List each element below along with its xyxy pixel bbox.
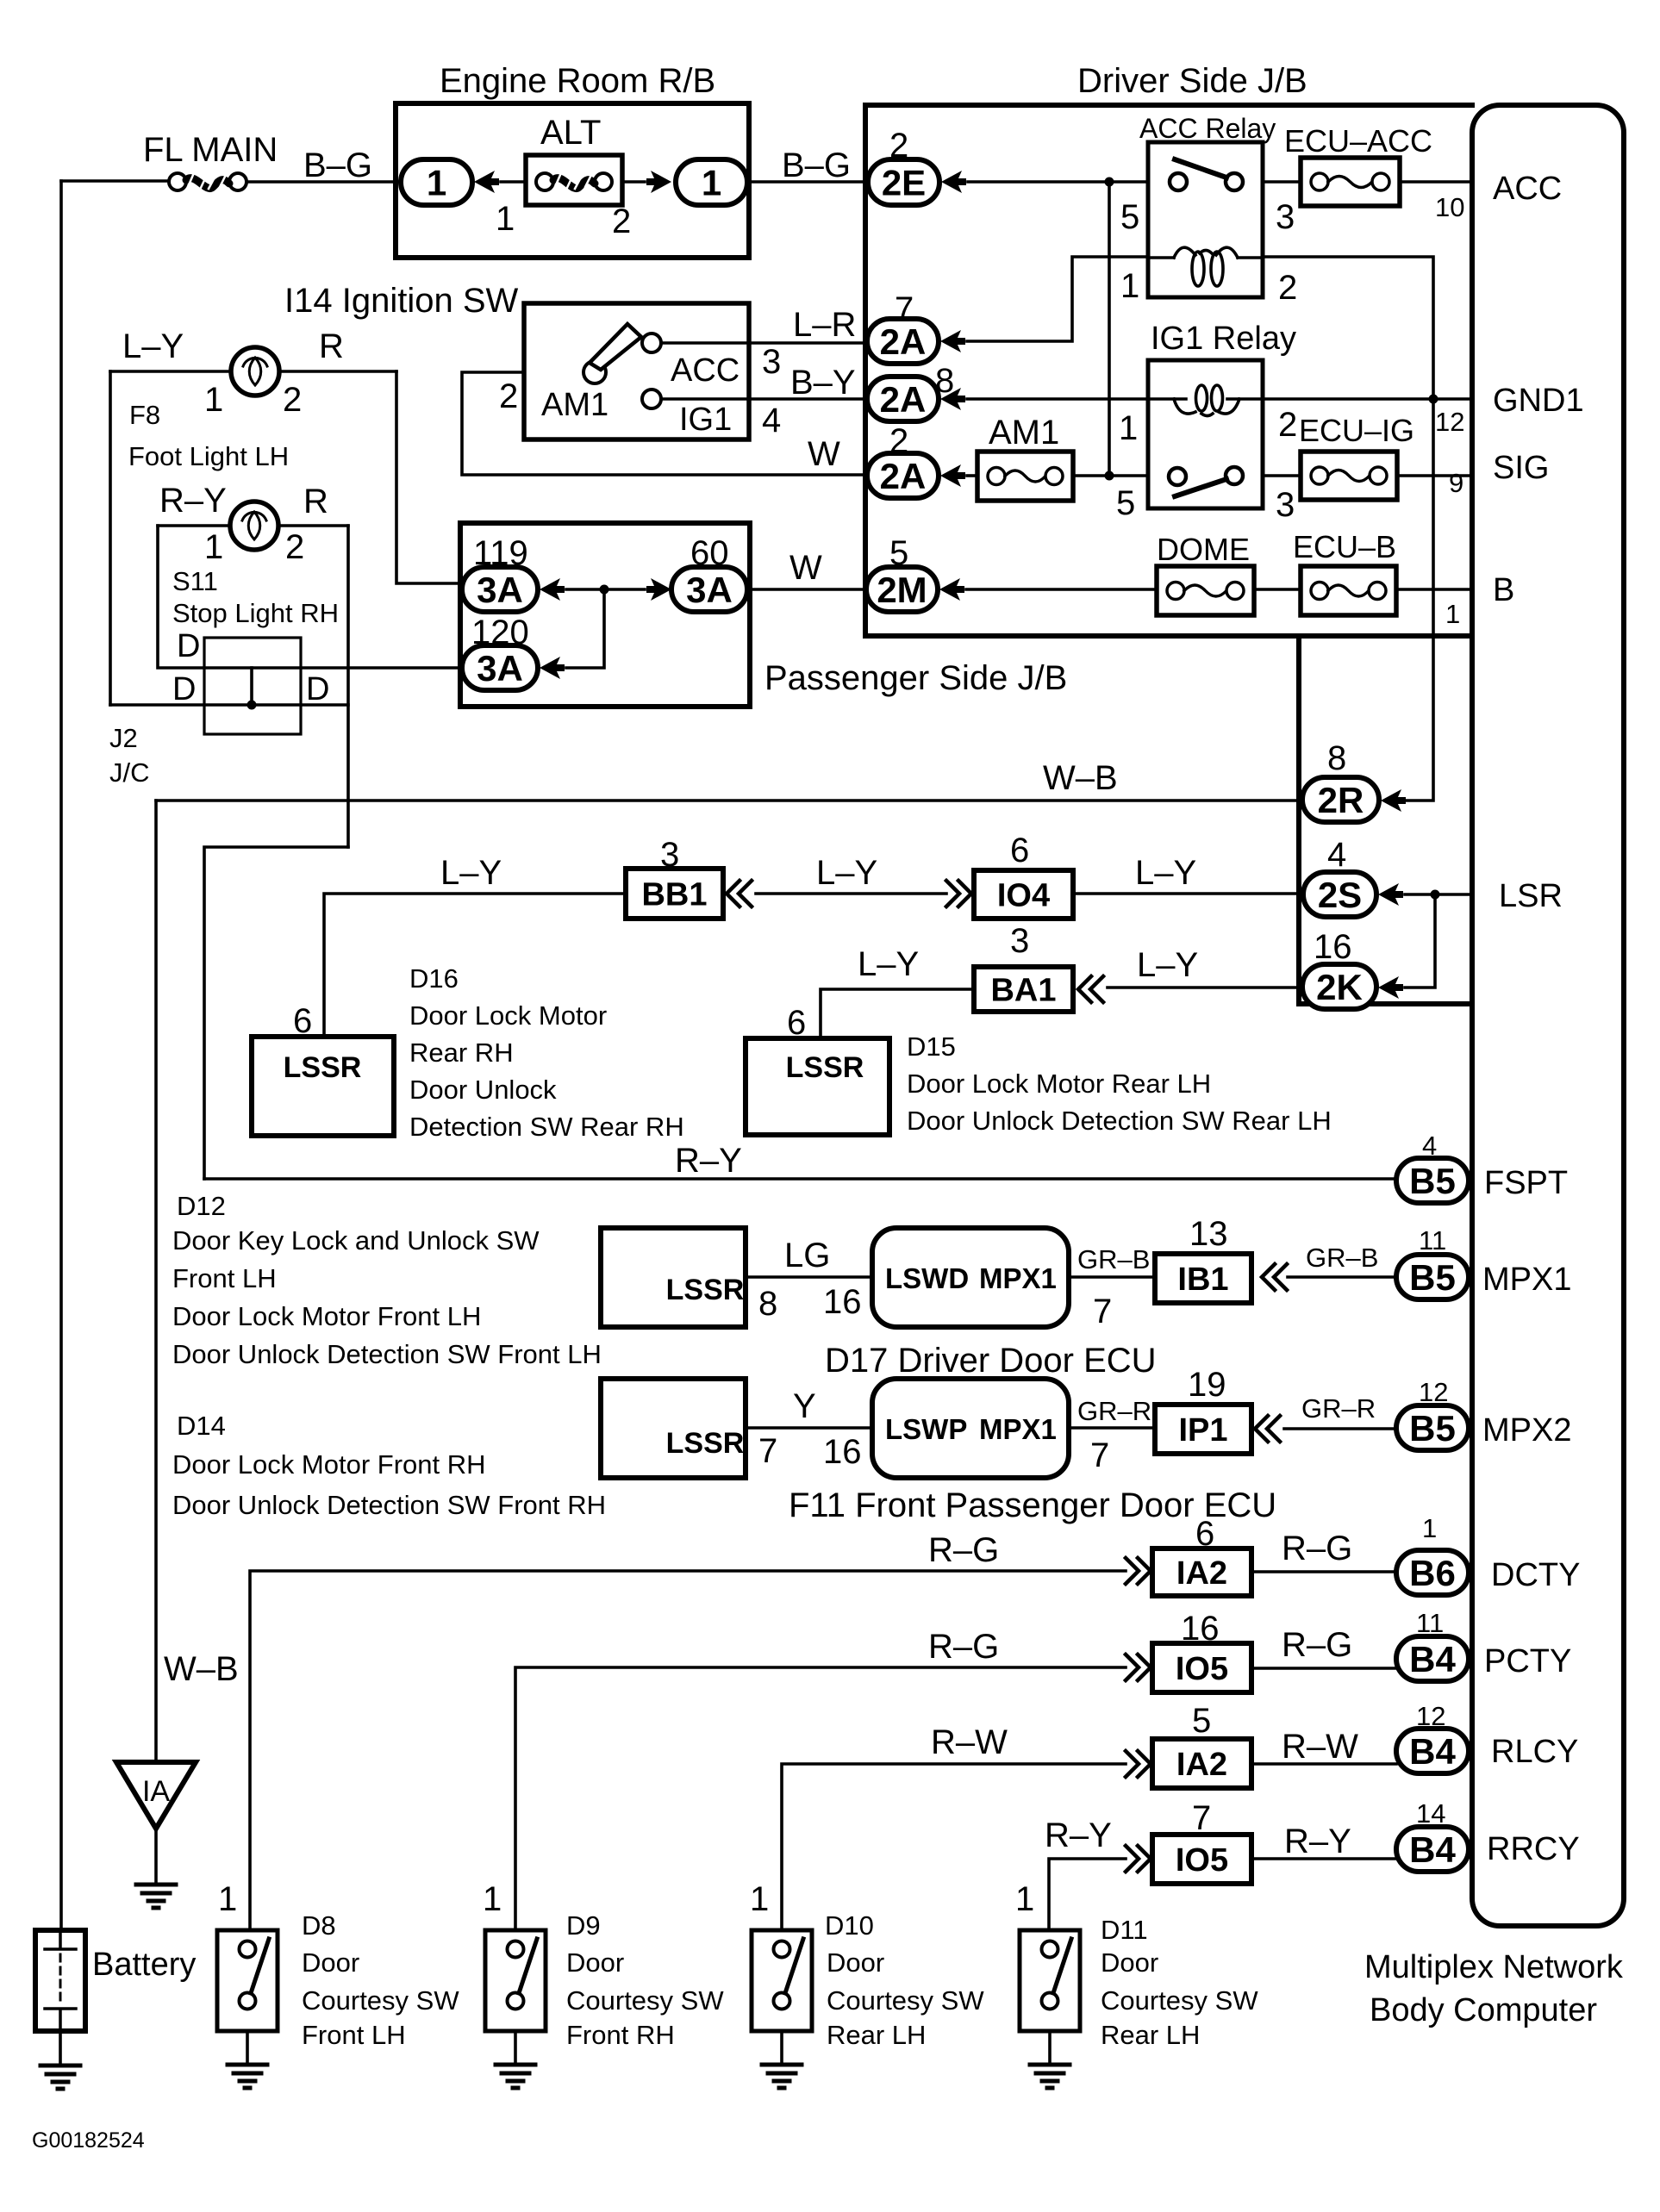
svg-text:W–B: W–B bbox=[1043, 759, 1118, 797]
svg-text:IG1 Relay: IG1 Relay bbox=[1151, 321, 1296, 357]
connector B5 FSPT bbox=[1396, 1158, 1469, 1203]
wire W-B from ground lead to 2R bbox=[156, 799, 1302, 802]
svg-text:Front LH: Front LH bbox=[302, 2020, 406, 2050]
svg-text:12: 12 bbox=[1419, 1377, 1448, 1407]
svg-text:W–B: W–B bbox=[164, 1650, 239, 1688]
wire ACC relay to ECU-ACC fuse bbox=[1263, 180, 1301, 184]
svg-text:L–Y: L–Y bbox=[1137, 946, 1198, 984]
fusible link FL MAIN bbox=[169, 173, 186, 190]
svg-text:GR–B: GR–B bbox=[1306, 1243, 1378, 1273]
svg-text:F8: F8 bbox=[129, 400, 160, 430]
connector IO5 (16) bbox=[1152, 1643, 1251, 1692]
svg-text:Rear LH: Rear LH bbox=[827, 2020, 926, 2050]
svg-text:R–G: R–G bbox=[928, 1531, 999, 1569]
arrow into connector 1 (right) bbox=[646, 171, 671, 193]
connector 3A (120) bbox=[462, 645, 538, 690]
svg-text:DOME: DOME bbox=[1157, 532, 1250, 567]
junction block: Passenger Side J/B bbox=[460, 523, 750, 707]
svg-text:R–W: R–W bbox=[1282, 1728, 1358, 1766]
svg-text:LSR: LSR bbox=[1499, 878, 1563, 914]
wire AM1 fuse to IG1 relay switch bbox=[1073, 474, 1148, 477]
svg-text:7: 7 bbox=[1090, 1436, 1109, 1474]
arrow into 2E bbox=[941, 171, 966, 193]
svg-text:1: 1 bbox=[1422, 1513, 1437, 1543]
svg-text:6: 6 bbox=[1010, 832, 1029, 869]
svg-text:2R: 2R bbox=[1318, 780, 1364, 820]
wire B-G to 2E bbox=[747, 180, 868, 184]
svg-text:D: D bbox=[306, 671, 329, 707]
svg-text:Door Lock Motor Front RH: Door Lock Motor Front RH bbox=[172, 1449, 486, 1480]
svg-text:IO4: IO4 bbox=[997, 878, 1050, 914]
wire D11 to IO5 (R-Y) bbox=[1049, 1859, 1126, 1930]
svg-text:Front RH: Front RH bbox=[566, 2020, 675, 2050]
ground symbol below battery bbox=[41, 2066, 80, 2089]
connector B4 RRCY bbox=[1396, 1827, 1469, 1872]
svg-text:Passenger Side J/B: Passenger Side J/B bbox=[764, 659, 1067, 697]
wire BB1 to IO4 bbox=[756, 892, 946, 895]
svg-text:IO5: IO5 bbox=[1176, 1842, 1228, 1879]
svg-text:9: 9 bbox=[1449, 468, 1463, 498]
wire ACC coil pin2 to GND1 bbox=[1263, 257, 1433, 398]
svg-text:ACC Relay: ACC Relay bbox=[1139, 113, 1276, 144]
svg-text:3A: 3A bbox=[477, 570, 523, 610]
svg-text:2: 2 bbox=[1278, 269, 1297, 307]
connector IA2 (5) bbox=[1152, 1739, 1251, 1788]
svg-text:B–Y: B–Y bbox=[790, 364, 856, 402]
svg-text:2A: 2A bbox=[880, 379, 927, 420]
svg-text:ECU–B: ECU–B bbox=[1293, 529, 1396, 564]
svg-text:7: 7 bbox=[758, 1432, 777, 1470]
svg-text:Door Key Lock and Unlock SW: Door Key Lock and Unlock SW bbox=[172, 1225, 540, 1256]
battery bbox=[35, 1930, 85, 2031]
svg-text:GR–R: GR–R bbox=[1077, 1396, 1151, 1426]
connector IB1 bbox=[1155, 1254, 1251, 1303]
svg-text:L–Y: L–Y bbox=[1135, 854, 1196, 892]
wire IO5 to B4 bbox=[1251, 1667, 1396, 1670]
lamp F8 Foot Light LH bbox=[110, 370, 396, 373]
svg-text:11: 11 bbox=[1419, 1225, 1446, 1256]
svg-text:GR–R: GR–R bbox=[1301, 1393, 1376, 1424]
svg-text:1: 1 bbox=[204, 528, 223, 566]
svg-text:1: 1 bbox=[496, 200, 515, 238]
svg-text:1: 1 bbox=[750, 1880, 769, 1918]
wire 3A(119) to 3A(60) bbox=[566, 588, 645, 591]
svg-text:IP1: IP1 bbox=[1178, 1412, 1227, 1449]
ignition lever bbox=[590, 324, 641, 370]
wire IB1 to B5 MPX1 bbox=[1288, 1275, 1396, 1279]
svg-text:R–Y: R–Y bbox=[159, 482, 227, 520]
svg-text:BA1: BA1 bbox=[990, 973, 1056, 1009]
svg-text:B4: B4 bbox=[1409, 1731, 1456, 1772]
connector 2A pin7 bbox=[867, 319, 939, 364]
svg-text:1: 1 bbox=[218, 1880, 237, 1918]
svg-text:D14: D14 bbox=[177, 1411, 226, 1441]
fuse ALT bbox=[526, 155, 622, 205]
wire: FL MAIN to Engine Room R/B bbox=[61, 181, 403, 182]
svg-text:11: 11 bbox=[1416, 1608, 1444, 1638]
svg-text:FSPT: FSPT bbox=[1484, 1165, 1568, 1201]
svg-text:LSSR: LSSR bbox=[666, 1274, 745, 1306]
wire 2A(8) to IG1 relay coil and GND1 bbox=[967, 397, 1472, 401]
svg-text:LSWP: LSWP bbox=[885, 1413, 967, 1445]
svg-text:RLCY: RLCY bbox=[1491, 1734, 1578, 1770]
connector IP1 bbox=[1155, 1405, 1251, 1454]
ECU connector LSWP MPX1 (F11 Front Passenger Door ECU) bbox=[872, 1379, 1069, 1478]
svg-text:3: 3 bbox=[762, 343, 781, 381]
connector LSSR of D15 bbox=[746, 1038, 889, 1135]
connector LSSR of D14 bbox=[601, 1379, 746, 1478]
wire S11 loop bbox=[158, 526, 465, 847]
wire LSWD to IB1 bbox=[1069, 1275, 1155, 1279]
arrow into 3A(119) bbox=[540, 578, 565, 601]
ground connector IA (triangle) bbox=[116, 1762, 196, 1829]
arrow into 2A(2) bbox=[940, 464, 965, 487]
connector 2M bbox=[866, 567, 938, 612]
connector IO4 bbox=[974, 870, 1073, 919]
connector 1 (left) bbox=[401, 159, 472, 205]
svg-text:ACC: ACC bbox=[1493, 171, 1562, 207]
svg-text:IB1: IB1 bbox=[1177, 1262, 1228, 1298]
arrow into 3A(120) bbox=[540, 657, 565, 679]
wire IA2 to B6 bbox=[1251, 1570, 1396, 1573]
svg-text:PCTY: PCTY bbox=[1484, 1643, 1571, 1679]
svg-text:3: 3 bbox=[1276, 198, 1295, 236]
svg-text:1: 1 bbox=[1119, 409, 1138, 447]
svg-text:5: 5 bbox=[1192, 1702, 1211, 1740]
wire IA2 to B4 RLCY bbox=[1251, 1762, 1396, 1766]
svg-text:LSSR: LSSR bbox=[284, 1051, 362, 1084]
svg-text:1: 1 bbox=[1120, 267, 1139, 305]
svg-text:ACC: ACC bbox=[671, 352, 740, 389]
wire ignition AM1 to 2A(2) bbox=[462, 372, 867, 475]
node: LSR junction bbox=[1431, 890, 1440, 900]
wire ECU-B to body computer pin 1 (B) bbox=[1396, 588, 1472, 591]
arrow into 2R bbox=[1381, 789, 1406, 812]
connector 1 (right) bbox=[676, 159, 747, 205]
lamp S11 Stop Light RH bbox=[158, 524, 348, 527]
connector B5 MPX2 bbox=[1396, 1405, 1469, 1450]
connector IA2 (6) bbox=[1152, 1548, 1251, 1596]
svg-text:Courtesy SW: Courtesy SW bbox=[566, 1985, 724, 2016]
connector 2A pin2 bbox=[867, 453, 939, 498]
wire IO5 to B4 RRCY bbox=[1251, 1857, 1396, 1860]
wire: battery feed left vertical bbox=[59, 181, 63, 1930]
wire DOME to ECU-B bbox=[1254, 588, 1301, 591]
svg-text:7: 7 bbox=[1192, 1799, 1211, 1837]
svg-text:D10: D10 bbox=[825, 1910, 874, 1941]
wire LSR from body computer to 2S bbox=[1405, 893, 1472, 896]
svg-text:3A: 3A bbox=[686, 570, 733, 610]
connector B6 DCTY bbox=[1396, 1550, 1469, 1595]
chevron into IA2 bbox=[1126, 1558, 1151, 1584]
wire GND1 junction down to 2R (crosses B line) bbox=[1405, 399, 1433, 801]
wire 2E to ACC relay bbox=[968, 180, 1148, 184]
svg-text:D11: D11 bbox=[1101, 1915, 1148, 1945]
connector LSSR of D16 bbox=[252, 1037, 394, 1136]
wire junction down to 3A(120) bbox=[566, 589, 604, 668]
svg-text:ECU–ACC: ECU–ACC bbox=[1284, 123, 1432, 159]
arrow into 2A(7) bbox=[940, 330, 965, 352]
svg-text:5: 5 bbox=[1120, 198, 1139, 236]
svg-text:B5: B5 bbox=[1409, 1161, 1456, 1201]
wire J/C horizontal bbox=[110, 703, 348, 707]
svg-text:Door: Door bbox=[302, 1947, 359, 1978]
svg-text:Door Lock Motor: Door Lock Motor bbox=[409, 1000, 607, 1031]
svg-text:Door: Door bbox=[1101, 1947, 1158, 1978]
svg-text:IG1: IG1 bbox=[679, 402, 732, 438]
wire ECU-IG to body computer pin 9 bbox=[1397, 474, 1472, 477]
wire D8 to IA2 (R-G) bbox=[250, 1571, 1126, 1930]
wire R-Y to FSPT bbox=[204, 1177, 1396, 1181]
svg-text:2: 2 bbox=[499, 377, 518, 415]
svg-text:Multiplex Network: Multiplex Network bbox=[1364, 1949, 1624, 1985]
svg-text:Door Unlock Detection SW Rear: Door Unlock Detection SW Rear LH bbox=[907, 1106, 1332, 1136]
svg-text:B4: B4 bbox=[1409, 1829, 1456, 1870]
svg-text:B–G: B–G bbox=[782, 146, 851, 184]
wire LSWP to IP1 bbox=[1069, 1426, 1155, 1430]
svg-text:R: R bbox=[319, 327, 344, 365]
svg-text:R–G: R–G bbox=[1282, 1626, 1352, 1664]
svg-text:Door Unlock: Door Unlock bbox=[409, 1075, 557, 1105]
arrow into 2M bbox=[939, 578, 964, 601]
wire F8 pin1 down bbox=[109, 371, 112, 705]
connector 2A pin8 bbox=[867, 377, 939, 421]
svg-text:D12: D12 bbox=[177, 1191, 226, 1221]
wire IO4 to 2S bbox=[1073, 892, 1303, 895]
svg-text:3A: 3A bbox=[477, 648, 523, 689]
arrow into connector 1 bbox=[474, 171, 499, 193]
svg-text:1: 1 bbox=[1015, 1880, 1034, 1918]
arrow into 2A(8) bbox=[940, 388, 965, 410]
svg-text:R–Y: R–Y bbox=[1284, 1823, 1351, 1860]
svg-text:Foot Light LH: Foot Light LH bbox=[128, 441, 289, 471]
svg-text:ALT: ALT bbox=[540, 114, 601, 152]
connector BA1 bbox=[974, 967, 1073, 1012]
svg-text:W: W bbox=[789, 549, 822, 587]
svg-text:B6: B6 bbox=[1409, 1553, 1456, 1593]
fuse DOME bbox=[1157, 566, 1254, 615]
svg-text:Door: Door bbox=[566, 1947, 624, 1978]
svg-text:19: 19 bbox=[1188, 1366, 1226, 1404]
svg-text:D9: D9 bbox=[566, 1910, 601, 1941]
svg-text:3: 3 bbox=[1276, 486, 1295, 524]
connector BB1 bbox=[626, 869, 723, 919]
svg-text:2: 2 bbox=[612, 203, 631, 240]
svg-text:Door Unlock Detection SW Front: Door Unlock Detection SW Front LH bbox=[172, 1339, 602, 1369]
svg-text:Engine Room R/B: Engine Room R/B bbox=[440, 62, 715, 100]
svg-text:Body Computer: Body Computer bbox=[1370, 1992, 1597, 2028]
arrow into 2K bbox=[1378, 976, 1403, 999]
svg-text:G00182524: G00182524 bbox=[32, 2128, 145, 2153]
svg-text:Battery: Battery bbox=[92, 1947, 196, 1983]
fuse AM1 bbox=[977, 452, 1073, 501]
svg-text:2K: 2K bbox=[1316, 967, 1363, 1007]
connector 2R bbox=[1302, 777, 1379, 822]
svg-text:1: 1 bbox=[204, 381, 223, 419]
svg-text:R: R bbox=[303, 483, 328, 520]
svg-text:MPX2: MPX2 bbox=[1482, 1412, 1571, 1449]
svg-text:BB1: BB1 bbox=[641, 877, 707, 913]
junction connector J2 J/C bbox=[204, 638, 301, 734]
svg-text:10: 10 bbox=[1435, 192, 1464, 222]
arrow into 3A(60) bbox=[646, 578, 671, 601]
connector B4 PCTY bbox=[1396, 1636, 1469, 1681]
svg-text:13: 13 bbox=[1189, 1215, 1228, 1253]
node: junction at 2E line bbox=[1105, 178, 1114, 187]
wire ignition ACC to 2A bbox=[661, 341, 868, 345]
svg-text:1: 1 bbox=[1445, 599, 1460, 629]
svg-text:D17 Driver Door ECU: D17 Driver Door ECU bbox=[825, 1342, 1157, 1380]
chevron out of IB1 bbox=[1262, 1264, 1287, 1290]
svg-text:14: 14 bbox=[1416, 1798, 1445, 1829]
svg-text:SIG: SIG bbox=[1493, 450, 1549, 486]
svg-text:B: B bbox=[1493, 572, 1514, 608]
svg-text:LG: LG bbox=[784, 1237, 830, 1274]
svg-text:IA2: IA2 bbox=[1176, 1555, 1227, 1592]
connector B5 MPX1 bbox=[1396, 1255, 1469, 1299]
svg-text:AM1: AM1 bbox=[989, 414, 1059, 452]
svg-text:R–W: R–W bbox=[931, 1723, 1008, 1761]
svg-text:D15: D15 bbox=[907, 1031, 956, 1062]
ground symbol below IA bbox=[136, 1885, 176, 1908]
svg-text:D8: D8 bbox=[302, 1910, 336, 1941]
svg-text:GR–B: GR–B bbox=[1077, 1244, 1150, 1274]
svg-text:I14 Ignition SW: I14 Ignition SW bbox=[284, 282, 518, 320]
wire 3A(60) to 2M bbox=[747, 588, 866, 591]
svg-text:2M: 2M bbox=[877, 570, 927, 610]
wire BA1 to 2K bbox=[1108, 986, 1302, 989]
chevron into IO5 bbox=[1126, 1654, 1151, 1680]
svg-text:2S: 2S bbox=[1318, 875, 1362, 915]
svg-text:IO5: IO5 bbox=[1176, 1651, 1228, 1687]
svg-text:MPX1: MPX1 bbox=[1482, 1262, 1571, 1298]
svg-text:Rear RH: Rear RH bbox=[409, 1037, 514, 1068]
svg-text:Door Lock Motor Front LH: Door Lock Motor Front LH bbox=[172, 1301, 481, 1331]
svg-text:2E: 2E bbox=[882, 163, 926, 203]
svg-text:8: 8 bbox=[758, 1285, 777, 1323]
wire F8 pin2 down to 3A(119) bbox=[396, 371, 465, 583]
svg-text:J/C: J/C bbox=[109, 757, 150, 788]
coil of IG1 relay bbox=[1174, 399, 1195, 414]
ECU connector LSWD MPX1 (D17 Driver Door ECU) bbox=[872, 1228, 1069, 1327]
wire BB1 to rear RH lock bbox=[324, 894, 626, 1037]
chevron out of IP1 bbox=[1255, 1416, 1280, 1442]
connector B4 RLCY bbox=[1396, 1729, 1469, 1773]
svg-text:MPX1: MPX1 bbox=[979, 1413, 1057, 1445]
wire 2A(7) to ACC relay coil pin1 bbox=[967, 257, 1148, 341]
svg-text:Courtesy SW: Courtesy SW bbox=[302, 1985, 459, 2016]
wire LSSR to LSWP bbox=[746, 1426, 872, 1430]
svg-text:16: 16 bbox=[1314, 928, 1352, 966]
svg-text:12: 12 bbox=[1435, 407, 1464, 437]
svg-text:Door Unlock Detection SW Front: Door Unlock Detection SW Front RH bbox=[172, 1490, 606, 1520]
wire LSR branch down to 2K bbox=[1405, 894, 1435, 988]
svg-text:4: 4 bbox=[1327, 836, 1346, 874]
svg-text:Door Lock Motor Rear LH: Door Lock Motor Rear LH bbox=[907, 1069, 1211, 1099]
svg-text:7: 7 bbox=[1093, 1293, 1112, 1330]
svg-text:4: 4 bbox=[762, 402, 781, 439]
connector LSSR of D12 bbox=[601, 1228, 746, 1327]
svg-text:LSWD: LSWD bbox=[885, 1262, 969, 1294]
svg-text:W: W bbox=[808, 435, 840, 473]
svg-text:Stop Light RH: Stop Light RH bbox=[172, 598, 339, 628]
node: junction on AM1 line bbox=[1105, 471, 1114, 481]
Driver Side J/B lower extension bbox=[1299, 636, 1472, 1004]
wire IP1 to B5 MPX2 bbox=[1284, 1427, 1396, 1430]
connector 3A (119) bbox=[462, 567, 538, 612]
svg-text:S11: S11 bbox=[172, 566, 218, 596]
svg-text:L–Y: L–Y bbox=[816, 854, 877, 892]
svg-text:ECU–IG: ECU–IG bbox=[1299, 413, 1414, 448]
svg-text:MPX1: MPX1 bbox=[979, 1262, 1057, 1294]
chevron into IA2(5) bbox=[1126, 1751, 1151, 1777]
svg-text:RRCY: RRCY bbox=[1487, 1831, 1580, 1867]
node: GND1 junction bbox=[1429, 395, 1438, 404]
svg-text:D16: D16 bbox=[409, 963, 459, 994]
svg-text:B5: B5 bbox=[1409, 1408, 1456, 1449]
fuse ECU-B bbox=[1301, 566, 1396, 615]
svg-text:2: 2 bbox=[285, 528, 304, 566]
svg-text:R–Y: R–Y bbox=[1045, 1816, 1112, 1854]
connector IO5 (7) bbox=[1152, 1835, 1251, 1884]
svg-text:8: 8 bbox=[1327, 739, 1346, 777]
svg-text:2: 2 bbox=[283, 381, 302, 419]
svg-text:D: D bbox=[172, 671, 196, 707]
wire J/C to FSPT bbox=[204, 847, 348, 1179]
wire IG1 relay to ECU-IG fuse bbox=[1263, 474, 1301, 477]
fuse ECU-IG bbox=[1301, 452, 1397, 500]
svg-text:3: 3 bbox=[1010, 922, 1029, 960]
svg-text:1: 1 bbox=[483, 1880, 502, 1918]
svg-text:1: 1 bbox=[702, 163, 721, 203]
chevron into IO4 bbox=[946, 881, 971, 907]
svg-text:Detection SW Rear RH: Detection SW Rear RH bbox=[409, 1112, 684, 1142]
wire 2M to DOME fuse bbox=[966, 588, 1157, 591]
svg-text:L–Y: L–Y bbox=[440, 854, 502, 892]
wire LSSR to LSWD bbox=[746, 1275, 872, 1279]
relay IG1 Relay bbox=[1148, 360, 1263, 508]
svg-text:L–Y: L–Y bbox=[122, 327, 184, 365]
connector 2S bbox=[1303, 872, 1376, 917]
junction block: Driver Side J/B bbox=[865, 105, 1472, 636]
connector 3A (60) bbox=[671, 567, 747, 612]
node: J/C junction bbox=[247, 701, 257, 710]
fuse ECU-ACC bbox=[1301, 158, 1400, 206]
svg-text:Door: Door bbox=[827, 1947, 884, 1978]
svg-text:IA2: IA2 bbox=[1176, 1747, 1227, 1783]
svg-text:Driver Side J/B: Driver Side J/B bbox=[1077, 62, 1307, 100]
svg-text:B5: B5 bbox=[1409, 1257, 1456, 1298]
relay ACC Relay bbox=[1148, 142, 1263, 297]
svg-text:IA: IA bbox=[142, 1775, 170, 1808]
junction block: Engine Room R/B bbox=[396, 103, 749, 258]
svg-text:Front LH: Front LH bbox=[172, 1263, 277, 1293]
ECU: Multiplex Network Body Computer bbox=[1472, 105, 1624, 1926]
svg-text:D: D bbox=[177, 628, 200, 664]
svg-text:R–Y: R–Y bbox=[675, 1142, 742, 1180]
svg-text:L–R: L–R bbox=[793, 306, 856, 344]
svg-text:FL MAIN: FL MAIN bbox=[143, 131, 278, 169]
svg-text:LSSR: LSSR bbox=[786, 1051, 864, 1084]
svg-text:L–Y: L–Y bbox=[858, 945, 919, 983]
arrow into 2S bbox=[1378, 883, 1403, 906]
svg-text:16: 16 bbox=[823, 1283, 862, 1321]
wire D9 to IO5 (R-G) bbox=[515, 1667, 1126, 1930]
svg-text:J2: J2 bbox=[109, 723, 138, 753]
wire: junction down to AM1 line bbox=[1108, 182, 1111, 476]
connector 2K bbox=[1302, 964, 1376, 1009]
chevron into IO5(7) bbox=[1126, 1846, 1151, 1872]
